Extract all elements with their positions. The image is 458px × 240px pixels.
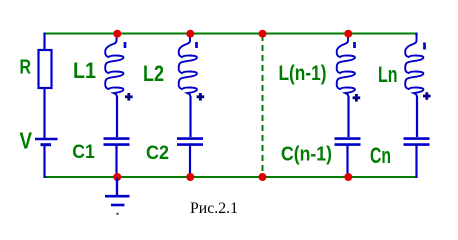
wire L(n-1) to C(n-1)	[347, 96, 349, 137]
battery V	[35, 139, 58, 145]
pin tick L1'	[124, 42, 127, 48]
label Cn	[370, 143, 391, 168]
svg-text:V: V	[20, 128, 33, 154]
capacitor C(n-1)	[335, 139, 361, 145]
node top dashed	[259, 30, 267, 38]
pin tick L2'	[195, 42, 198, 48]
capacitor C2	[177, 139, 203, 145]
svg-text:C2: C2	[146, 142, 169, 164]
svg-text:Cn: Cn	[370, 143, 391, 168]
wire continuation dashed	[262, 35, 264, 175]
node bottom C2	[186, 173, 194, 181]
svg-text:L(n-1): L(n-1)	[279, 62, 327, 85]
capacitor C1	[104, 139, 130, 145]
svg-text:Ln: Ln	[378, 62, 398, 87]
wire R to battery	[43, 88, 45, 138]
polarity + L1	[125, 93, 133, 101]
wire battery to bottom bus	[43, 145, 45, 178]
polarity + L(n-1)	[353, 94, 361, 102]
pin tick Ln'	[423, 43, 426, 50]
inductor L2	[179, 35, 197, 99]
capacitor Cn	[404, 139, 430, 145]
polarity + Ln	[423, 92, 431, 100]
label C1	[72, 141, 95, 163]
svg-text:Рис.2.1: Рис.2.1	[190, 200, 238, 217]
wire right branch top (top bus corner to Ln)	[415, 33, 417, 37]
svg-text:R: R	[20, 57, 32, 79]
wire top bus	[44, 33, 417, 35]
wire Cn to bottom bus	[415, 145, 417, 178]
wire C1 to bottom bus	[115, 145, 117, 178]
svg-text:L1: L1	[73, 58, 96, 83]
label R	[20, 57, 32, 79]
label L2	[143, 61, 164, 86]
label C2	[146, 142, 169, 164]
node top L2	[186, 30, 194, 38]
caption Рис.2.1	[190, 200, 238, 217]
label C(n-1)	[281, 143, 332, 166]
resistor R	[39, 50, 52, 88]
svg-text:C1: C1	[72, 141, 95, 163]
wire bottom bus	[44, 176, 417, 178]
node bottom dashed	[259, 173, 267, 181]
wire left branch top (top bus to R)	[43, 33, 45, 52]
wire Ln to Cn	[416, 96, 418, 137]
ground	[105, 178, 130, 215]
wire C(n-1) to bottom bus	[346, 145, 348, 178]
label V	[20, 128, 33, 154]
polarity + L2	[197, 93, 205, 101]
inductor L(n-1)	[337, 35, 355, 99]
wire L2 to C2	[189, 96, 191, 137]
wire C2 to bottom bus	[189, 145, 191, 178]
pin tick L(n-1)'	[353, 42, 356, 48]
node top L(n-1)	[344, 30, 352, 38]
svg-text:L2: L2	[143, 61, 164, 86]
inductor L1	[105, 35, 123, 99]
inductor Ln	[405, 35, 423, 99]
label L1	[73, 58, 96, 83]
label L(n-1)	[279, 62, 327, 85]
wire L1 to C1	[116, 96, 118, 137]
node bottom C(n-1)	[344, 173, 352, 181]
svg-text:C(n-1): C(n-1)	[281, 143, 332, 166]
node bottom C1	[113, 173, 121, 181]
node top L1	[113, 30, 121, 38]
label Ln	[378, 62, 398, 87]
